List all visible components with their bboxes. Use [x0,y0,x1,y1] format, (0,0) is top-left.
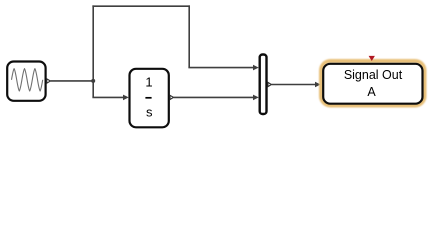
integrator block U1 (1/s) [130,69,174,128]
svg-text:1: 1 [145,74,152,89]
branch junction dot [91,79,95,83]
svg-text:s: s [146,105,153,120]
wire integrator to mux input 2 [174,96,254,98]
wire into integrator [92,96,123,98]
svg-text:A: A [367,85,376,99]
wire right vertical down [188,5,190,67]
Signal Out outport block [323,64,422,104]
svg-text:Signal Out: Signal Out [344,68,403,82]
wire branch down to integrator [92,80,94,97]
wire sine to branch junction [50,80,93,82]
wire top horizontal [92,5,190,7]
red breakpoint marker [369,56,375,61]
sine wave source block [7,62,50,101]
output port of integrator [170,95,174,99]
Signal Out block selection halo [321,61,425,106]
mux block [260,55,272,115]
output port of sine block [47,79,51,83]
output port of mux [268,82,272,86]
wire mux to Signal Out [271,84,315,86]
wire into mux input 1 [188,67,253,69]
wire branch up [92,5,94,81]
